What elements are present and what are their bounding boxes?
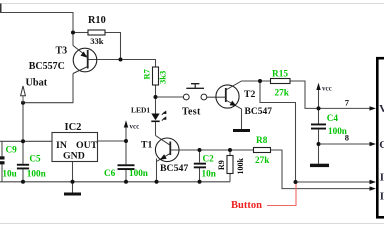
wire LED1 anode lead <box>155 97 157 114</box>
wire R9 top lead <box>229 150 231 156</box>
svg-text:T1: T1 <box>141 139 152 150</box>
svg-text:BC547: BC547 <box>245 107 273 117</box>
transistor T2 <box>216 81 272 117</box>
wire IC2 GND lead <box>72 162 74 193</box>
node ground C6 junction <box>124 180 128 184</box>
ic main module frame <box>376 57 384 219</box>
svg-text:T2: T2 <box>244 89 255 100</box>
wire C4 top lead <box>318 108 320 123</box>
node R7 / LED1 / Test junction <box>154 95 158 99</box>
resistor R8 <box>254 136 271 166</box>
svg-text:7: 7 <box>345 97 350 107</box>
node ground T1 emitter junction <box>155 180 159 184</box>
capacitor C6 <box>104 164 148 178</box>
svg-text:vcc: vcc <box>130 123 140 131</box>
ground IC2 <box>64 193 81 196</box>
svg-text:10u: 10u <box>2 169 16 179</box>
wire R10 left <box>73 32 88 34</box>
wire C4 bottom lead <box>318 130 320 144</box>
capacitor C9 <box>0 144 17 178</box>
resistor R10 <box>88 15 106 46</box>
node ground IC2 junction <box>71 180 75 184</box>
wire C2 bottom lead <box>199 168 201 182</box>
wire T1 base rail <box>171 149 254 151</box>
svg-text:G: G <box>379 139 384 151</box>
pin arrow In upper <box>370 180 377 184</box>
wire IC2 OUT to vcc node <box>98 140 127 142</box>
svg-text:100k: 100k <box>236 158 245 175</box>
svg-text:C2: C2 <box>203 153 215 163</box>
wire R9 bottom lead <box>229 174 231 182</box>
transistor T3 <box>29 46 97 74</box>
wire C2 top lead <box>199 150 201 163</box>
node ground C2 junction <box>198 180 202 184</box>
wire test node to button <box>156 96 184 98</box>
wire vcc arrow shaft right <box>318 90 320 109</box>
node ground C5 junction <box>21 180 25 184</box>
wire input rail to IC2 IN <box>0 140 52 142</box>
regulator IC2 <box>52 122 98 162</box>
wire upper In pin <box>296 181 371 183</box>
svg-text:R8: R8 <box>256 136 268 146</box>
svg-text:8: 8 <box>345 132 349 142</box>
svg-text:I: I <box>380 172 384 184</box>
svg-text:Test: Test <box>182 106 201 117</box>
svg-text:Button: Button <box>231 200 262 211</box>
wire R10 right to base node <box>105 33 121 60</box>
svg-text:R9: R9 <box>217 160 226 170</box>
wire button red net <box>267 182 296 206</box>
svg-text:IC2: IC2 <box>65 122 82 133</box>
svg-text:100n: 100n <box>129 168 148 178</box>
node T2 collector / R15 junction <box>258 79 262 83</box>
svg-text:27k: 27k <box>275 89 290 99</box>
pin arrow In lower <box>370 186 377 190</box>
wire pin8 to IC <box>319 143 371 145</box>
svg-text:BC557C: BC557C <box>29 61 65 72</box>
power vcc right <box>316 83 331 93</box>
wire C9 bottom lead <box>1 164 3 182</box>
LED LED1 <box>131 106 166 123</box>
svg-text:GND: GND <box>63 150 85 161</box>
node T3 base / R10 junction <box>119 58 123 62</box>
wire T2 collector drop <box>260 81 296 182</box>
svg-text:10n: 10n <box>202 168 216 178</box>
svg-text:100n: 100n <box>27 169 46 179</box>
svg-text:LED1: LED1 <box>131 106 150 115</box>
wire T3 emitter up <box>72 33 74 46</box>
node vcc / C6 / IC2 OUT junction <box>124 139 128 143</box>
pin arrow 8 <box>370 142 377 146</box>
svg-text:C6: C6 <box>104 168 116 178</box>
wire T2 emitter down <box>241 109 243 130</box>
node Button / In pin junction <box>294 180 298 184</box>
net Ubat <box>21 77 48 102</box>
wire T3 base to R7 <box>89 60 156 68</box>
svg-text:C4: C4 <box>327 113 339 123</box>
svg-text:V: V <box>379 103 384 115</box>
capacitor C2 <box>194 153 216 178</box>
wire pin7 to IC <box>319 107 371 109</box>
capacitor C5 <box>17 154 46 179</box>
svg-text:BC547: BC547 <box>160 163 188 174</box>
ground T2 emitter <box>233 129 250 132</box>
wire C6 bottom lead <box>125 170 127 182</box>
wire Ubat rail down <box>22 103 24 142</box>
wire C5 top lead <box>22 141 24 164</box>
wire C4 ground stub <box>318 144 320 164</box>
wire C6 top lead <box>125 141 127 164</box>
node vcc pin7 / C4 junction <box>317 106 321 110</box>
wire R8 right corner down <box>271 150 371 189</box>
svg-text:R10: R10 <box>88 15 106 26</box>
node R9 / R8 junction <box>228 148 232 152</box>
resistor R15 <box>271 70 291 99</box>
wire T2 collector node <box>242 80 271 82</box>
wire LED1 cathode to T1 collector <box>155 122 157 136</box>
wire T3 collector to Ubat node <box>23 74 73 103</box>
node T1 base / C2 junction <box>198 148 202 152</box>
switch Test <box>182 84 207 118</box>
wire left edge stub <box>0 4 2 13</box>
svg-text:R15: R15 <box>272 70 288 80</box>
page bottom border <box>0 223 384 225</box>
node Ubat junction <box>21 101 25 105</box>
svg-text:27k: 27k <box>255 156 270 166</box>
node pin8 / C4 ground junction <box>317 142 321 146</box>
svg-text:R7: R7 <box>141 68 151 79</box>
pin arrow 7 <box>370 106 377 110</box>
svg-text:3k3: 3k3 <box>157 71 167 84</box>
svg-text:C5: C5 <box>29 154 41 164</box>
svg-text:T3: T3 <box>56 46 68 57</box>
resistor R7 <box>141 67 167 85</box>
wire C5 bottom lead <box>22 169 24 181</box>
node input rail / C5 junction <box>21 139 25 143</box>
node T3 emitter / R10 junction <box>71 31 75 35</box>
resistor R9 <box>217 156 245 175</box>
wire R7 bottom to test node <box>155 85 157 97</box>
wire T1 emitter down <box>156 159 158 182</box>
power vcc left <box>124 120 139 130</box>
wire C9 top lead <box>1 141 3 156</box>
svg-text:33k: 33k <box>90 36 104 46</box>
svg-text:C9: C9 <box>6 144 18 154</box>
wire vcc arrow shaft left <box>125 127 127 141</box>
wire top rail <box>0 13 73 33</box>
svg-text:vcc: vcc <box>322 85 332 93</box>
wire button to T2 base <box>207 96 226 98</box>
ground C4 <box>310 164 329 167</box>
svg-text:I: I <box>380 190 384 202</box>
transistor T1 <box>141 136 188 175</box>
svg-text:Ubat: Ubat <box>26 77 48 88</box>
page top border <box>0 3 384 5</box>
capacitor C4 <box>311 113 347 136</box>
wire ground rail <box>0 181 230 183</box>
wire R15 right to corner <box>290 81 319 108</box>
